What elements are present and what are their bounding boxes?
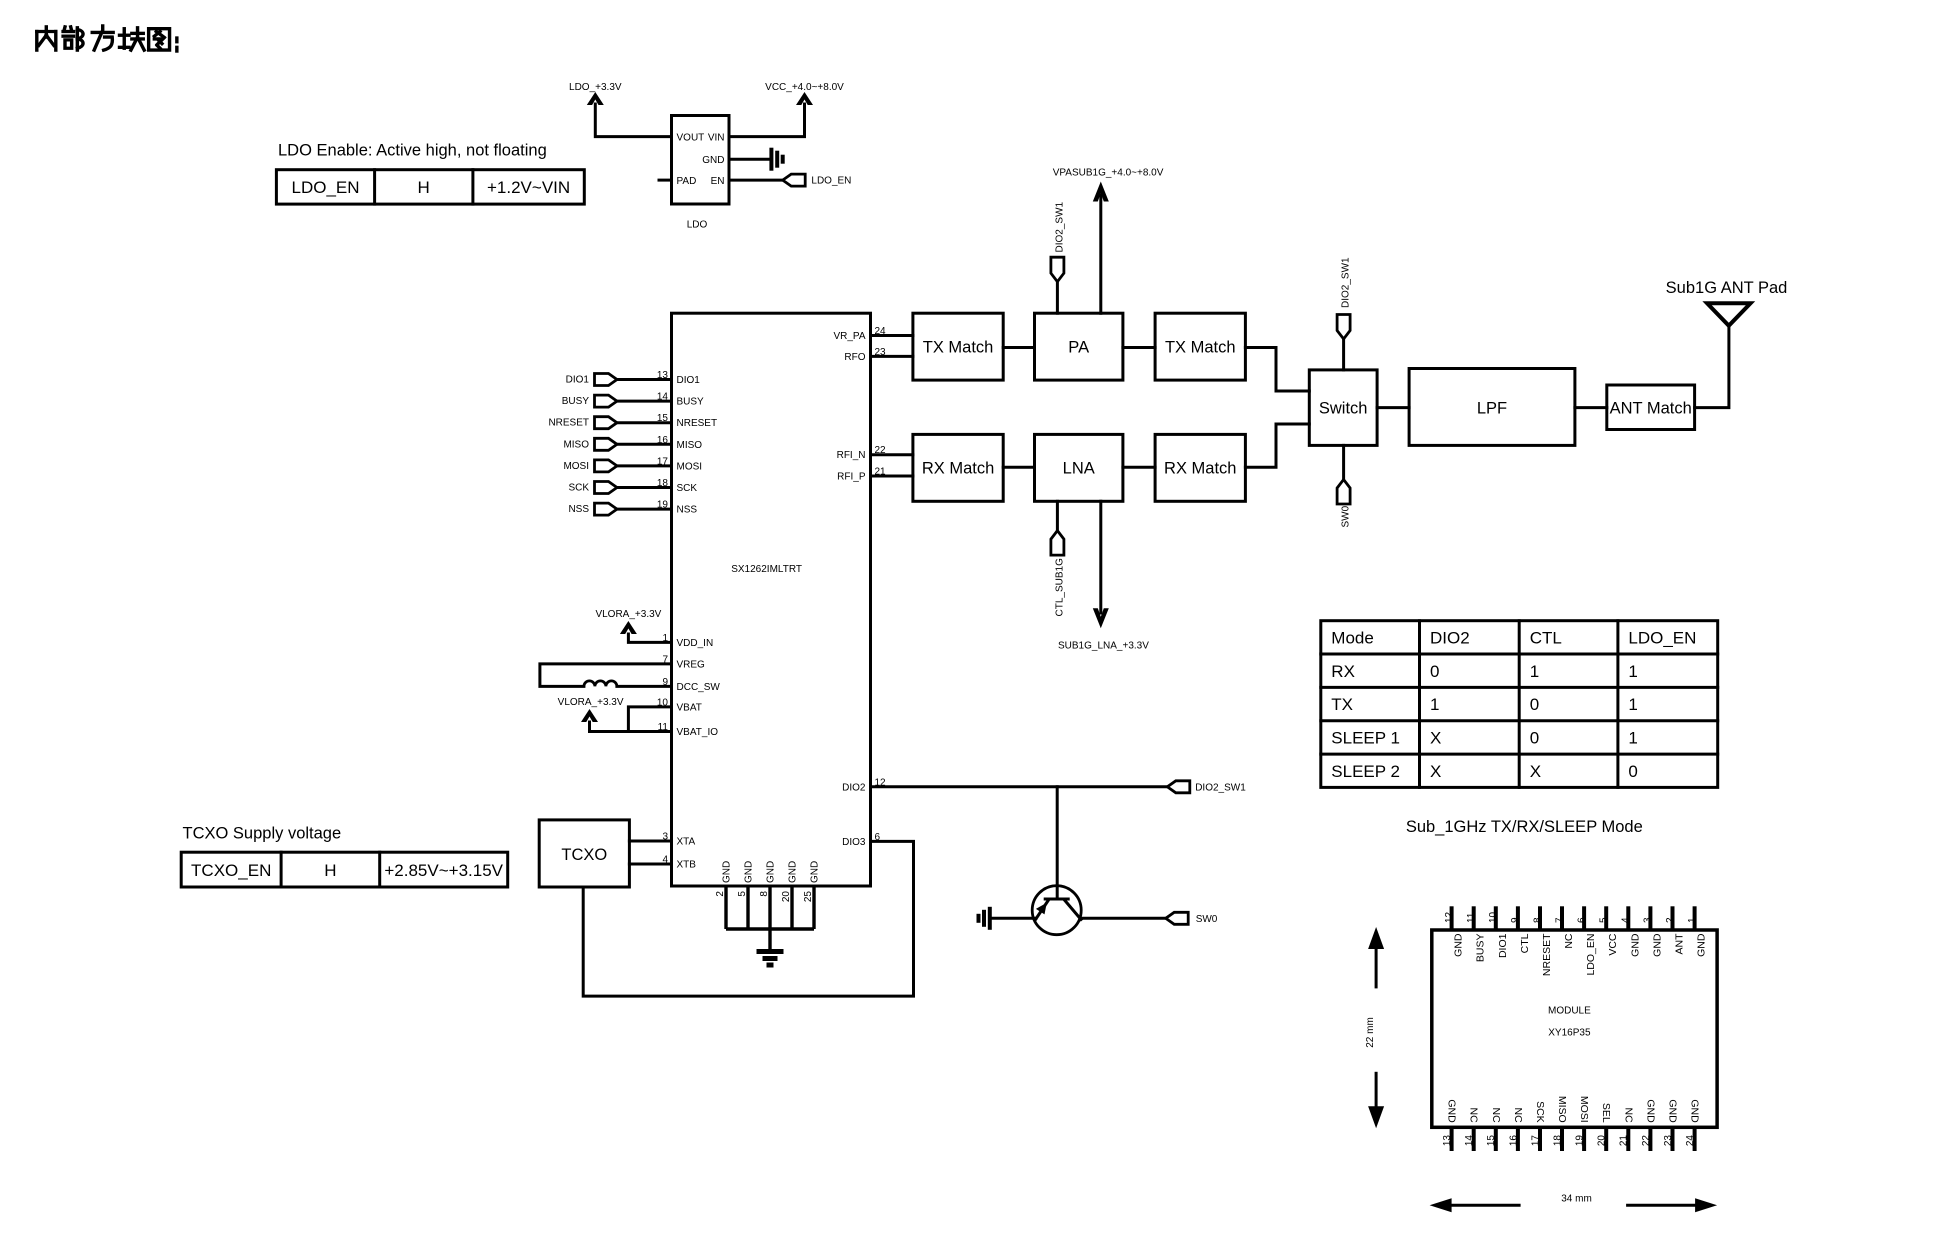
svg-text:0: 0 (1530, 729, 1539, 748)
svg-text:0: 0 (1530, 695, 1539, 714)
svg-text:XTA: XTA (677, 837, 696, 848)
svg-text:BUSY: BUSY (677, 397, 705, 408)
svg-text:DIO3: DIO3 (842, 837, 866, 848)
svg-text:SCK: SCK (677, 483, 698, 494)
svg-text:19: 19 (657, 500, 669, 511)
svg-text:MISO: MISO (677, 440, 703, 451)
svg-text:DIO2_SW1: DIO2_SW1 (1055, 201, 1066, 252)
svg-text:4: 4 (1621, 917, 1632, 923)
svg-text:+1.2V~VIN: +1.2V~VIN (487, 178, 570, 197)
svg-text:NC: NC (1622, 1108, 1634, 1124)
svg-text:NC: NC (1468, 1108, 1480, 1124)
svg-text:SEL: SEL (1600, 1103, 1612, 1123)
svg-text:1: 1 (1628, 695, 1637, 714)
svg-text:1: 1 (662, 633, 668, 644)
svg-text:0: 0 (1628, 762, 1637, 781)
svg-text:22: 22 (1641, 1135, 1652, 1147)
svg-text:5: 5 (737, 891, 748, 897)
svg-text:21: 21 (1619, 1135, 1630, 1147)
svg-text:BUSY: BUSY (562, 396, 590, 407)
svg-text:VCC: VCC (1607, 933, 1619, 956)
svg-text:34 mm: 34 mm (1561, 1194, 1592, 1205)
svg-text:RFO: RFO (844, 352, 865, 363)
svg-text:NC: NC (1512, 1108, 1524, 1124)
svg-text:VBAT: VBAT (677, 702, 702, 713)
svg-text:GND: GND (766, 861, 777, 883)
svg-text:22: 22 (875, 445, 887, 456)
svg-text:CTL: CTL (1519, 933, 1531, 953)
svg-text:7: 7 (1554, 917, 1565, 923)
svg-text:TX Match: TX Match (1165, 338, 1236, 356)
svg-text:10: 10 (657, 697, 669, 708)
svg-text:SW0: SW0 (1341, 505, 1352, 527)
svg-text:GND: GND (1696, 933, 1708, 957)
svg-text:7: 7 (662, 654, 668, 665)
svg-text:RX Match: RX Match (1164, 460, 1236, 478)
svg-text:RFI_N: RFI_N (837, 450, 866, 461)
svg-text:10: 10 (1488, 911, 1499, 923)
svg-text:LDO_EN: LDO_EN (811, 176, 851, 187)
svg-text:MISO: MISO (1556, 1096, 1568, 1123)
svg-text:VCC_+4.0~+8.0V: VCC_+4.0~+8.0V (765, 82, 844, 93)
svg-text:TX: TX (1331, 695, 1353, 714)
svg-text:17: 17 (657, 456, 669, 467)
svg-text:VDD_IN: VDD_IN (677, 638, 714, 649)
svg-text:24: 24 (1685, 1135, 1696, 1147)
svg-text:12: 12 (875, 777, 887, 788)
svg-text:VREG: VREG (677, 659, 706, 670)
svg-text:NRESET: NRESET (677, 418, 718, 429)
svg-text:18: 18 (1552, 1135, 1563, 1147)
svg-text:TCXO: TCXO (561, 846, 607, 864)
svg-text:11: 11 (658, 722, 669, 733)
svg-text:CTL: CTL (1530, 629, 1562, 648)
svg-text:MOSI: MOSI (563, 461, 589, 472)
svg-text:GND: GND (788, 861, 799, 883)
svg-text:TCXO Supply voltage: TCXO Supply voltage (183, 825, 342, 843)
svg-text:H: H (324, 861, 336, 880)
svg-text:0: 0 (1430, 662, 1439, 681)
svg-text:RFI_P: RFI_P (837, 472, 866, 483)
svg-text:Sub_1GHz TX/RX/SLEEP Mode: Sub_1GHz TX/RX/SLEEP Mode (1406, 818, 1643, 836)
svg-text:VLORA_+3.3V: VLORA_+3.3V (558, 697, 624, 708)
svg-text:LPF: LPF (1477, 400, 1507, 418)
svg-text:9: 9 (1510, 917, 1521, 923)
svg-text:1: 1 (1430, 695, 1439, 714)
svg-text:VIN: VIN (708, 132, 725, 143)
svg-text:21: 21 (875, 467, 887, 478)
svg-text:GND: GND (1667, 1099, 1679, 1123)
svg-text:VPASUB1G_+4.0~+8.0V: VPASUB1G_+4.0~+8.0V (1053, 168, 1164, 179)
svg-text:GND: GND (810, 861, 821, 883)
svg-text:NC: NC (1563, 933, 1575, 949)
svg-text:TX Match: TX Match (923, 338, 994, 356)
svg-text:LNA: LNA (1063, 460, 1095, 478)
svg-text:19: 19 (1575, 1135, 1586, 1147)
svg-text:23: 23 (1663, 1135, 1674, 1147)
svg-text:23: 23 (875, 347, 887, 358)
svg-text:GND: GND (744, 861, 755, 883)
svg-text:SX1262IMLTRT: SX1262IMLTRT (731, 564, 802, 575)
svg-text:24: 24 (875, 326, 887, 337)
svg-text:GND: GND (722, 861, 733, 883)
svg-text:6: 6 (1576, 917, 1587, 923)
svg-text:14: 14 (1464, 1135, 1475, 1147)
svg-text:SCK: SCK (1534, 1101, 1546, 1123)
svg-text:3: 3 (662, 832, 668, 843)
svg-text:+2.85V~+3.15V: +2.85V~+3.15V (384, 861, 503, 880)
svg-text:DIO2_SW1: DIO2_SW1 (1195, 782, 1246, 793)
svg-text:SUB1G_LNA_+3.3V: SUB1G_LNA_+3.3V (1058, 641, 1149, 652)
svg-text:25: 25 (803, 891, 814, 903)
svg-text:TCXO_EN: TCXO_EN (191, 861, 271, 880)
svg-text:15: 15 (657, 413, 669, 424)
svg-text:CTL_SUB1G: CTL_SUB1G (1055, 558, 1066, 617)
svg-text:DCC_SW: DCC_SW (677, 682, 721, 693)
svg-text:DIO1: DIO1 (1497, 933, 1509, 958)
svg-text:DIO1: DIO1 (566, 375, 590, 386)
svg-text:MISO: MISO (563, 439, 589, 450)
svg-text:20: 20 (1597, 1135, 1608, 1147)
svg-text:MOSI: MOSI (677, 461, 703, 472)
svg-text:VBAT_IO: VBAT_IO (677, 727, 719, 738)
svg-text:6: 6 (875, 832, 881, 843)
svg-text:DIO2: DIO2 (1430, 629, 1470, 648)
svg-text:VOUT: VOUT (677, 132, 705, 143)
svg-text:2: 2 (715, 891, 726, 897)
svg-text:RX: RX (1331, 662, 1355, 681)
svg-text:1: 1 (1530, 662, 1539, 681)
svg-text:3: 3 (1643, 917, 1654, 923)
svg-text:NSS: NSS (677, 505, 698, 516)
svg-text:SCK: SCK (568, 483, 589, 494)
svg-text:Switch: Switch (1319, 400, 1368, 418)
svg-text:NRESET: NRESET (1541, 933, 1553, 976)
svg-text:MOSI: MOSI (1578, 1096, 1590, 1123)
svg-text:LDO_EN: LDO_EN (291, 178, 359, 197)
svg-text:2: 2 (1665, 917, 1676, 923)
svg-text:GND: GND (1644, 1099, 1656, 1123)
svg-text:X: X (1530, 762, 1541, 781)
svg-text:NRESET: NRESET (548, 418, 589, 429)
svg-text:SLEEP 2: SLEEP 2 (1331, 762, 1400, 781)
svg-text:12: 12 (1444, 911, 1455, 923)
svg-text:GND: GND (1651, 933, 1663, 957)
svg-text:ANT: ANT (1674, 933, 1686, 955)
svg-text:GND: GND (1689, 1099, 1701, 1123)
svg-text:14: 14 (657, 392, 669, 403)
svg-text:18: 18 (657, 478, 669, 489)
svg-text:GND: GND (1446, 1099, 1458, 1123)
svg-text:11: 11 (1466, 912, 1477, 923)
svg-text:5: 5 (1599, 917, 1610, 923)
svg-text:1: 1 (1628, 662, 1637, 681)
svg-text:GND: GND (1629, 933, 1641, 957)
svg-text:PAD: PAD (677, 176, 697, 187)
svg-text:17: 17 (1530, 1135, 1541, 1147)
svg-text:4: 4 (662, 855, 668, 866)
svg-text:X: X (1430, 729, 1441, 748)
svg-text:MODULE: MODULE (1548, 1006, 1591, 1017)
svg-text:20: 20 (781, 891, 792, 903)
svg-text:NSS: NSS (568, 504, 589, 515)
svg-text:LDO_EN: LDO_EN (1628, 629, 1696, 648)
svg-text:H: H (418, 178, 430, 197)
svg-text:XY16P35: XY16P35 (1548, 1028, 1591, 1039)
svg-text:RX Match: RX Match (922, 460, 994, 478)
svg-text:16: 16 (657, 435, 669, 446)
svg-text:DIO2_SW1: DIO2_SW1 (1341, 257, 1352, 308)
svg-text:XTB: XTB (677, 860, 697, 871)
svg-text:SW0: SW0 (1196, 914, 1218, 925)
svg-text:16: 16 (1508, 1135, 1519, 1147)
svg-text:8: 8 (759, 891, 770, 897)
svg-text:BUSY: BUSY (1475, 934, 1487, 963)
svg-text:EN: EN (711, 176, 725, 187)
svg-text:NC: NC (1490, 1108, 1502, 1124)
svg-text:9: 9 (662, 677, 668, 688)
svg-text:GND: GND (1453, 933, 1465, 957)
svg-text:1: 1 (1687, 917, 1698, 923)
svg-text:8: 8 (1532, 917, 1543, 923)
svg-text:LDO Enable: Active high, not f: LDO Enable: Active high, not floating (278, 142, 547, 160)
svg-text:Sub1G ANT Pad: Sub1G ANT Pad (1666, 279, 1788, 297)
svg-text:DIO1: DIO1 (677, 375, 701, 386)
svg-text:LDO: LDO (687, 220, 708, 231)
svg-text:13: 13 (657, 370, 669, 381)
svg-text:GND: GND (702, 155, 724, 166)
svg-text:PA: PA (1068, 338, 1089, 356)
svg-text:VLORA_+3.3V: VLORA_+3.3V (595, 609, 661, 620)
svg-text:LDO_EN: LDO_EN (1585, 934, 1597, 976)
svg-text:15: 15 (1486, 1135, 1497, 1147)
svg-text:ANT Match: ANT Match (1610, 399, 1692, 417)
svg-text:X: X (1430, 762, 1441, 781)
svg-text:LDO_+3.3V: LDO_+3.3V (569, 82, 622, 93)
svg-text:VR_PA: VR_PA (833, 331, 865, 342)
svg-text:1: 1 (1628, 729, 1637, 748)
svg-text:DIO2: DIO2 (842, 782, 866, 793)
svg-text:SLEEP 1: SLEEP 1 (1331, 729, 1400, 748)
svg-text:Mode: Mode (1331, 629, 1374, 648)
svg-text:13: 13 (1442, 1135, 1453, 1147)
svg-text:22 mm: 22 mm (1365, 1017, 1376, 1048)
